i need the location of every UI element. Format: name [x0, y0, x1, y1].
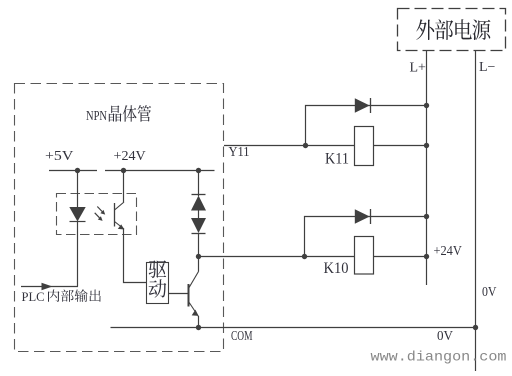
- label K10: [324, 260, 349, 277]
- svg-text:0V: 0V: [482, 285, 497, 300]
- label 0V bottom: [437, 329, 453, 344]
- wire collector to K10 line: [199, 256, 427, 258]
- node K11 coil / L+ junction: [424, 143, 429, 148]
- optocoupler LED (anode wire): [77, 171, 79, 208]
- wire PLC internal output with arrow: [21, 283, 78, 291]
- svg-text:L+: L+: [410, 61, 427, 76]
- wire +5V rail: [49, 170, 97, 172]
- optocoupler photo-transistor: [115, 202, 125, 230]
- label 0V right: [482, 285, 497, 300]
- driver box 驱动: [147, 263, 169, 304]
- relay coil K10: [355, 237, 374, 275]
- label 外部电源 (external power): [416, 19, 490, 40]
- wire emitter down to COM: [198, 316, 200, 328]
- wire photo-transistor collector to +24V: [123, 171, 125, 203]
- svg-text:NPN: NPN: [86, 108, 107, 123]
- label 驱动 (drive): [149, 260, 167, 297]
- wire L+ vertical rail: [426, 51, 428, 286]
- svg-text:K10: K10: [324, 260, 349, 277]
- svg-text:+5V: +5V: [45, 149, 73, 164]
- wire COM line: [111, 327, 476, 329]
- svg-text:PLC: PLC: [22, 289, 45, 304]
- wire LED cathode down: [77, 222, 79, 287]
- label +5V: [45, 149, 73, 164]
- wire Y11 output line: [224, 145, 427, 147]
- label L+: [410, 61, 427, 76]
- label +24V terminal: [434, 243, 463, 258]
- node Y11 branch junction: [303, 143, 308, 148]
- flyback diode D1 (K11): [355, 98, 371, 113]
- node clamp-diode top junction: [196, 168, 201, 173]
- label PLC内部输出: [22, 289, 101, 304]
- wire K10 flyback branch: [305, 217, 427, 257]
- optocoupler LED triangle and cathode bar: [69, 207, 85, 222]
- svg-text:Y11: Y11: [229, 145, 250, 160]
- wire collector up to clamp node: [198, 257, 200, 272]
- PLC module dashed enclosure: [15, 84, 224, 352]
- relay coil K11: [355, 127, 374, 166]
- watermark www.diangon.com: [371, 350, 507, 366]
- label +24V: [114, 149, 146, 164]
- node +5V / LED anode junction: [75, 168, 80, 173]
- node K10 branch junction: [302, 254, 307, 259]
- label K11: [325, 150, 349, 167]
- label L-: [479, 60, 496, 75]
- node K10 coil / L+ / +24V junction: [424, 254, 429, 259]
- svg-text:www.diangon.com: www.diangon.com: [371, 350, 507, 366]
- node K11 diode / L+ junction: [424, 103, 429, 108]
- svg-text:L−: L−: [479, 60, 496, 75]
- wire L- vertical rail: [475, 51, 477, 372]
- wire K11 flyback branch: [306, 106, 427, 146]
- node emitter / COM junction: [196, 325, 201, 330]
- svg-text:K11: K11: [325, 150, 349, 167]
- node photo-transistor collector junction: [121, 168, 126, 173]
- light emission arrows: [95, 207, 106, 221]
- label COM: [231, 328, 253, 343]
- wire +24V rail: [105, 170, 215, 172]
- label NPN晶体管 (NPN transistor type): [86, 105, 151, 123]
- node K10 diode / L+ junction: [424, 214, 429, 219]
- svg-text:+24V: +24V: [114, 149, 146, 164]
- clamp diode pair upper (pointing up): [191, 171, 206, 211]
- external power supply dashed box (外部电源): [398, 9, 506, 51]
- output transistor Q (NPN): [189, 272, 199, 317]
- node COM / L- junction: [473, 325, 478, 330]
- node collector junction: [196, 254, 201, 259]
- svg-text:COM: COM: [231, 328, 253, 343]
- label Y11: [229, 145, 250, 160]
- clamp diode pair lower (pointing down): [191, 211, 206, 257]
- wire driver output to transistor base: [169, 293, 189, 295]
- svg-text:0V: 0V: [437, 329, 453, 344]
- svg-text:+24V: +24V: [434, 243, 463, 258]
- wire photo-transistor emitter to driver: [124, 229, 147, 283]
- flyback diode D2 (K10): [355, 209, 371, 224]
- optocoupler dashed box: [57, 194, 137, 235]
